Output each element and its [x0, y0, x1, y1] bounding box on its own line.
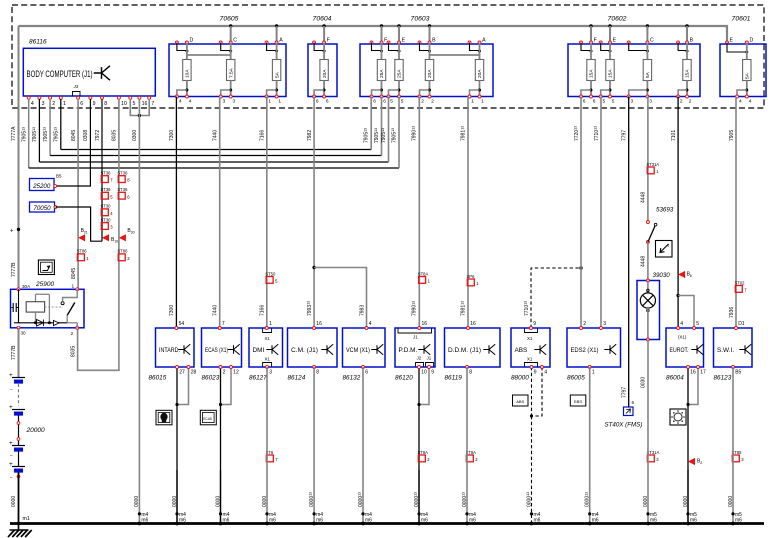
svg-text:m6: m6 [592, 518, 599, 524]
fuse C 5A [627, 38, 654, 105]
wire 70050 to connector B10 [56, 207, 103, 241]
ECU 86127 DMI [249, 328, 283, 367]
wire 7993 to C.M. pin 16 [313, 268, 315, 329]
svg-text:86120: 86120 [395, 375, 413, 382]
wire bus drop [381, 26, 383, 43]
icon ABS [513, 395, 529, 406]
svg-text:5A: 5A [745, 72, 751, 79]
svg-text:30: 30 [21, 331, 27, 336]
svg-text:4: 4 [749, 98, 752, 104]
icon gearbox [670, 409, 686, 425]
svg-text:8035: 8035 [70, 346, 76, 357]
wire 0000 to ground m5/m6 [732, 367, 734, 524]
switch 25200 [30, 174, 63, 191]
svg-text:5: 5 [696, 321, 699, 327]
svg-text:6: 6 [316, 98, 319, 104]
svg-text:30A: 30A [22, 284, 31, 289]
svg-text:88000: 88000 [511, 375, 529, 382]
svg-text:16: 16 [470, 321, 476, 327]
svg-text:3: 3 [631, 98, 634, 104]
wire ECAS pin2 to ground [220, 367, 222, 524]
svg-text:2: 2 [583, 321, 586, 327]
svg-text:0000: 0000 [643, 496, 649, 507]
svg-text:3: 3 [603, 321, 606, 327]
fuse F 20A [313, 38, 330, 105]
svg-text:5A: 5A [274, 71, 280, 78]
splice ST36/6 [117, 187, 130, 199]
svg-text:20A: 20A [477, 69, 483, 78]
splice ST30/4 [101, 204, 114, 216]
svg-text:ST36: ST36 [101, 171, 112, 176]
svg-text:−: − [10, 475, 13, 481]
svg-text:16: 16 [690, 370, 696, 376]
fuse C 7.5A [219, 38, 237, 105]
svg-text:J1: J1 [413, 335, 418, 340]
svg-text:7797: 7797 [622, 387, 628, 398]
fuse A 5A [265, 38, 283, 105]
svg-text:70603: 70603 [411, 16, 430, 23]
svg-text:86015: 86015 [149, 375, 167, 382]
wire INTARD pin28 [177, 367, 189, 405]
svg-text:86127: 86127 [249, 375, 267, 382]
svg-text:X1: X1 [265, 357, 271, 362]
svg-text:53693: 53693 [656, 207, 674, 214]
svg-text:D: D [750, 38, 754, 44]
bus junction [646, 24, 649, 27]
svg-text:2: 2 [700, 461, 702, 465]
splice SP6/1 [467, 274, 480, 286]
svg-text:B: B [432, 38, 436, 44]
svg-text:ST50: ST50 [265, 271, 276, 276]
svg-text:16: 16 [316, 321, 322, 327]
svg-text:7797: 7797 [622, 130, 628, 141]
svg-text:SP6: SP6 [467, 274, 476, 279]
svg-text:4448: 4448 [641, 192, 647, 203]
wire 0000 to ground m5/m6 [647, 340, 649, 524]
svg-text:D.D.M. (J1): D.D.M. (J1) [448, 347, 481, 354]
svg-text:1: 1 [592, 370, 595, 376]
svg-text:16: 16 [142, 101, 148, 107]
bus junction [685, 24, 688, 27]
svg-text:1: 1 [72, 284, 75, 290]
svg-text:m6: m6 [269, 518, 276, 524]
svg-text:2: 2 [689, 98, 692, 104]
splice ST86/1 [77, 249, 90, 261]
wire link fuse B to fuse A [430, 54, 480, 56]
svg-text:4: 4 [189, 98, 192, 104]
wire 0000 to ground m4/m6 [362, 367, 364, 524]
svg-text:25200: 25200 [32, 183, 51, 190]
wire ABS pin4 (dashed) [532, 367, 543, 416]
ECU 86015 INTARD. [156, 328, 195, 367]
svg-text:3: 3 [649, 98, 652, 104]
svg-text:m1: m1 [23, 516, 30, 522]
svg-text:m6: m6 [650, 518, 657, 524]
fuse F 25A [370, 38, 387, 105]
wire 0000 to ground m4/m6 [176, 470, 178, 524]
svg-text:ST36: ST36 [117, 171, 128, 176]
lamp 39030 [637, 272, 670, 341]
wire 0000 to ground m4/m6 [589, 367, 591, 524]
svg-text:C: C [233, 38, 237, 44]
wire 0308 pin9 to 25200 [55, 99, 90, 186]
svg-text:D1: D1 [738, 321, 745, 327]
svg-text:m6: m6 [469, 518, 476, 524]
bus junction [322, 24, 325, 27]
svg-text:1: 1 [278, 98, 281, 104]
wire P.D.M. pin10 to ground [418, 367, 420, 524]
svg-text:J2: J2 [417, 356, 422, 361]
svg-text:86023: 86023 [202, 375, 220, 382]
fuse A 20A [468, 38, 486, 105]
switch 70050 [30, 202, 57, 212]
connector B2 [688, 458, 702, 465]
svg-text:F: F [594, 38, 597, 44]
svg-text:m6: m6 [316, 518, 323, 524]
bus junction [608, 24, 611, 27]
ECU 86005 EDS2 (X1) [567, 328, 621, 367]
svg-text:6: 6 [80, 101, 83, 107]
fuse E 15A [599, 38, 616, 105]
relay 25900 [11, 281, 85, 337]
svg-text:21: 21 [84, 230, 88, 234]
icon hand lever [656, 241, 673, 258]
wire 7982 fuse 70604 to C.M. [313, 97, 315, 268]
svg-text:86004: 86004 [666, 375, 684, 382]
wire 4448 switch to lamp 39030 [647, 242, 649, 281]
svg-text:E: E [402, 38, 406, 44]
svg-text:2: 2 [71, 331, 74, 337]
wire 7710 dashed branch to ABS pin 9 [531, 268, 581, 328]
svg-text:17: 17 [700, 370, 706, 376]
outer dashed border of fused-supply section [12, 5, 764, 108]
svg-text:DMI: DMI [253, 347, 265, 354]
splice ST50/5 [265, 271, 278, 283]
svg-text:P.D.M.: P.D.M. [399, 347, 418, 354]
splice ST31A/3 [647, 450, 660, 462]
ECU 86023 ECAS (X1) [202, 328, 242, 367]
fuse box 70605 [169, 44, 286, 97]
fuse box 70601 [720, 44, 766, 97]
svg-text:ABS: ABS [516, 399, 524, 404]
wire link fuse C to fuse D [187, 54, 231, 56]
icon ECAS [200, 410, 216, 425]
svg-text:7440: 7440 [213, 130, 219, 141]
svg-text:25A: 25A [397, 69, 403, 78]
svg-text:E: E [730, 38, 734, 44]
svg-text:7166: 7166 [260, 130, 266, 141]
ECU 86132 VCM (X1) [343, 328, 386, 367]
splice ST8A/1 [418, 271, 431, 283]
svg-text:ECAS (X1): ECAS (X1) [205, 347, 228, 354]
splice ST8A/2 [466, 450, 479, 462]
wire 8035 pin10 to relay pin2 [78, 99, 119, 370]
svg-text:1: 1 [471, 98, 474, 104]
svg-text:ST30: ST30 [101, 217, 112, 222]
wire 0000 to ground m5/m6 [687, 470, 689, 524]
svg-text:5: 5 [133, 101, 136, 107]
svg-text:6: 6 [583, 98, 586, 104]
svg-text:E: E [613, 38, 617, 44]
svg-text:4: 4 [544, 370, 547, 376]
svg-text:6: 6 [632, 400, 635, 405]
connector B10 [102, 234, 118, 243]
svg-text:5: 5 [390, 98, 393, 104]
wire bus drop [276, 26, 278, 43]
splice ST31A/1 [646, 162, 659, 174]
fuse box 70604 [308, 44, 337, 97]
power bus wire from battery feed to fuse boxes [19, 26, 728, 43]
svg-text:ST36: ST36 [117, 187, 128, 192]
wire EUROT pin16 to ground [687, 367, 689, 524]
splice ST02/7 [735, 280, 748, 292]
wire bus drop [646, 26, 648, 43]
svg-text:12: 12 [233, 370, 239, 376]
svg-text:J1: J1 [427, 356, 432, 361]
fuse F 15A [580, 38, 597, 105]
wire 7720 fuse 70602 to EDS2 pin 2 [580, 97, 582, 329]
svg-text:X1: X1 [527, 336, 533, 341]
battery 20000 [9, 372, 45, 481]
wire bus drop [590, 26, 592, 43]
svg-text:0000: 0000 [728, 496, 734, 507]
svg-text:S.W.I.: S.W.I. [717, 347, 734, 354]
svg-text:0000: 0000 [134, 496, 140, 507]
svg-text:7.5A: 7.5A [228, 67, 234, 78]
svg-text:0030: 0030 [641, 377, 647, 388]
svg-text:+: + [10, 229, 14, 235]
svg-text:F: F [327, 38, 330, 44]
connector B30 [119, 228, 135, 242]
svg-text:5: 5 [401, 98, 404, 104]
wire 7710 fuse 70602 to EDS2 pin 3 [600, 97, 602, 329]
connector B6 [678, 271, 692, 278]
ECU 86119 D.D.M. (J1) [445, 328, 501, 367]
svg-text:8045: 8045 [71, 268, 77, 279]
wire P.D.M. pin9 [419, 367, 429, 405]
splice ST6/7 [266, 450, 279, 462]
svg-text:7300: 7300 [169, 130, 175, 141]
wire 0000 to ground m4/m6 [466, 367, 468, 524]
svg-text:1: 1 [269, 321, 272, 327]
svg-text:3: 3 [233, 98, 236, 104]
svg-text:X1: X1 [265, 336, 271, 341]
svg-text:25900: 25900 [35, 281, 54, 288]
svg-text:86132: 86132 [343, 375, 361, 382]
svg-text:4448: 4448 [641, 256, 647, 267]
svg-text:C.M. (J1): C.M. (J1) [291, 347, 318, 354]
wire bus drop [230, 26, 232, 43]
svg-text:B5: B5 [56, 174, 62, 179]
svg-text:4: 4 [739, 98, 742, 104]
splice ST36/8 [117, 171, 130, 183]
wire 7101 fuse 70602 to EUROT pin 4 [677, 97, 679, 329]
wire 7981 fuse 70603 to D.D.M. pin 16 [467, 97, 469, 329]
svg-text:8: 8 [104, 101, 107, 107]
svg-text:0308: 0308 [83, 130, 89, 141]
svg-text:6: 6 [383, 98, 386, 104]
wire 0000 to ground m4/m6 [531, 416, 533, 524]
fuse box 70603 [360, 44, 493, 97]
svg-text:1: 1 [268, 98, 271, 104]
wire bus drop [686, 26, 688, 43]
bus junction [397, 24, 400, 27]
wire 7300 fuse to INTARD pin 54 [175, 97, 177, 329]
svg-text:86119: 86119 [445, 375, 463, 382]
svg-text:3: 3 [223, 98, 226, 104]
svg-text:0000: 0000 [172, 496, 178, 507]
ECU 86123 S.W.I. [714, 328, 753, 367]
svg-text:2: 2 [223, 370, 226, 376]
svg-text:m6: m6 [735, 518, 742, 524]
svg-text:VCM (X1): VCM (X1) [346, 347, 370, 354]
bus junction [428, 24, 431, 27]
ECU 86004 EUROT. [666, 328, 704, 367]
splice ST8A/2 [418, 450, 431, 462]
wire ECAS pin12 [221, 367, 232, 405]
fuse box 70602 [568, 44, 700, 97]
svg-text:20000: 20000 [26, 427, 45, 434]
splice ST86/2 [117, 249, 130, 261]
svg-text:m6: m6 [534, 518, 541, 524]
ground m1 [8, 516, 32, 537]
svg-text:6: 6 [365, 370, 368, 376]
svg-text:7300: 7300 [169, 305, 175, 316]
svg-text:0300: 0300 [132, 130, 138, 141]
svg-text:2: 2 [431, 98, 434, 104]
svg-text:7982: 7982 [307, 130, 313, 141]
wire 7166 fuse to DMI pin 1 [266, 97, 268, 329]
wire 7990 fuse 70603 to P.D.M. pin 16 [418, 97, 420, 329]
svg-text:7983: 7983 [359, 305, 365, 316]
svg-text:ST8A: ST8A [418, 271, 429, 276]
svg-text:86123: 86123 [714, 375, 732, 382]
wire 7797 fuse 70602 to FMS connector [628, 97, 630, 408]
svg-text:4: 4 [31, 101, 34, 107]
svg-text:m6: m6 [690, 518, 697, 524]
svg-text:ST36: ST36 [101, 187, 112, 192]
svg-text:8035: 8035 [112, 130, 118, 141]
svg-text:ST02: ST02 [735, 280, 746, 285]
svg-text:7777B: 7777B [11, 262, 17, 277]
svg-text:−: − [10, 387, 13, 393]
svg-text:15A: 15A [685, 69, 691, 78]
svg-text:m6: m6 [223, 518, 230, 524]
svg-text:5A: 5A [645, 71, 651, 78]
wire bus drop [398, 26, 400, 43]
svg-text:8: 8 [316, 370, 319, 376]
svg-text:16: 16 [422, 321, 428, 327]
wire 7777A battery feed [18, 26, 20, 289]
wire 7905 fuse 70601 to S.W.I. pin D1 [735, 97, 737, 329]
svg-text:ST86: ST86 [117, 249, 128, 254]
svg-text:86124: 86124 [288, 375, 306, 382]
svg-text:15A: 15A [608, 69, 614, 78]
ECU 88000 ABS [511, 328, 550, 367]
wire 0000 to ground m4/m6 [220, 470, 222, 524]
splice ST36/5 [101, 187, 114, 199]
svg-text:ST30: ST30 [101, 204, 112, 209]
svg-text:0000: 0000 [215, 496, 221, 507]
svg-text:ST86: ST86 [77, 249, 88, 254]
svg-text:70601: 70601 [732, 16, 751, 23]
junction 7982/7983 [312, 266, 315, 269]
svg-text:2: 2 [421, 98, 424, 104]
splice ST85/3 [732, 450, 745, 462]
fuse B 20A [418, 38, 436, 105]
svg-text:9: 9 [93, 101, 96, 107]
svg-text:0000: 0000 [262, 496, 268, 507]
svg-text:30: 30 [131, 230, 135, 234]
wire 0000 to ground m4/m6 [313, 367, 315, 524]
svg-text:7936: 7936 [729, 307, 735, 318]
svg-text:70602: 70602 [608, 16, 627, 23]
wire 7905 from pin 1 (bundle line 1) [60, 99, 62, 150]
wire 7440 fuse to ECAS pin 7 [219, 97, 221, 329]
svg-text:70604: 70604 [313, 16, 332, 23]
svg-text:10A: 10A [185, 69, 191, 78]
svg-text:70050: 70050 [33, 205, 51, 212]
svg-text:7972: 7972 [95, 130, 101, 141]
svg-text:2: 2 [680, 98, 683, 104]
svg-text:A: A [482, 38, 486, 44]
svg-text:B5: B5 [735, 370, 741, 376]
node + battery positive tap [17, 228, 20, 231]
fuse D 10A [175, 38, 193, 105]
svg-text:7440: 7440 [213, 305, 219, 316]
svg-text:X1: X1 [527, 357, 533, 362]
wire ABS pin9 to ground (dashed) [531, 367, 533, 416]
svg-text:4: 4 [369, 321, 372, 327]
svg-text:EUROT.: EUROT. [670, 347, 689, 354]
relay icon [38, 260, 54, 275]
svg-text:4: 4 [680, 321, 683, 327]
svg-text:6: 6 [690, 274, 692, 278]
svg-text:−: − [10, 453, 13, 459]
svg-text:B: B [690, 38, 694, 44]
wire 0300 pins 5/16/7 [130, 99, 139, 116]
wire 7972 pin8 [101, 99, 103, 241]
wire VCM pin6 to ground [362, 366, 365, 369]
splice ST30/3 [101, 217, 114, 229]
svg-text:ECAS: ECAS [203, 417, 212, 421]
svg-text:A: A [279, 38, 283, 44]
svg-text:5: 5 [612, 98, 615, 104]
svg-text:4: 4 [179, 98, 182, 104]
svg-text:EBS: EBS [574, 399, 582, 404]
svg-text:10: 10 [421, 370, 427, 376]
wire 0000 to ground m4/m6 [266, 367, 268, 524]
icon retarder [156, 410, 172, 425]
svg-text:10: 10 [121, 101, 127, 107]
wire 7777B relay to battery [18, 328, 20, 378]
splice ST36/7 [101, 171, 114, 183]
svg-text:2: 2 [668, 244, 670, 248]
svg-text:6: 6 [593, 98, 596, 104]
wire 0000 to ground m4/m6 [418, 470, 420, 524]
svg-text:7905: 7905 [729, 130, 735, 141]
svg-text:27: 27 [179, 370, 185, 376]
wire 4448 fuse 70602 to switch 53693 [647, 97, 649, 223]
wire 8045 pin6 to relay [77, 99, 79, 289]
wire 7983 branch to VCM pin 4 [314, 268, 366, 329]
wire branch to EUROT pin 5 [678, 296, 694, 329]
svg-text:5: 5 [603, 98, 606, 104]
ground rail m6 [10, 522, 764, 525]
svg-text:J3: J3 [73, 84, 79, 89]
wire DMI pin3 to ground [266, 366, 269, 369]
svg-text:3: 3 [269, 370, 272, 376]
